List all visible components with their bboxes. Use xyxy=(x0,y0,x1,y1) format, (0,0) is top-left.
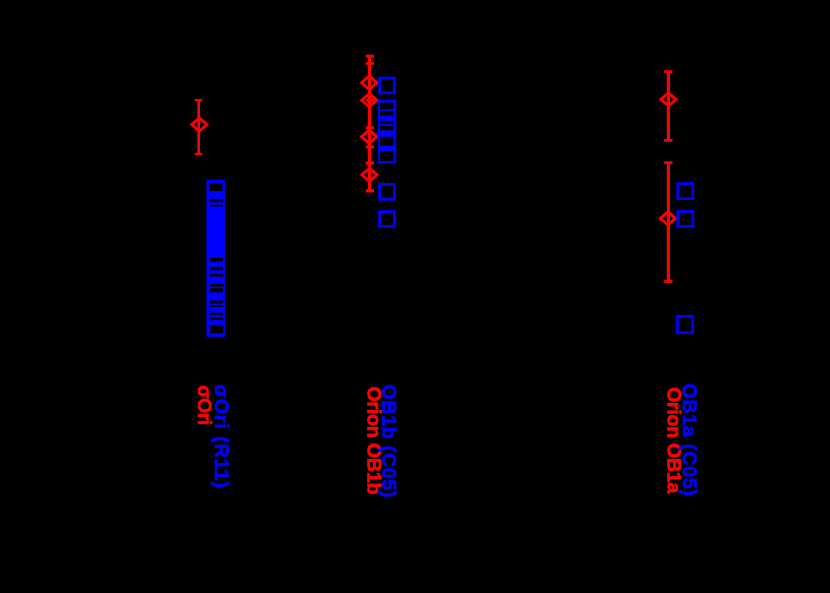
svg-text:OB1b (C05): OB1b (C05) xyxy=(378,384,400,498)
svg-text:OB1a (C05): OB1a (C05) xyxy=(678,383,700,496)
svg-text:σOri (R11): σOri (R11) xyxy=(210,384,232,488)
